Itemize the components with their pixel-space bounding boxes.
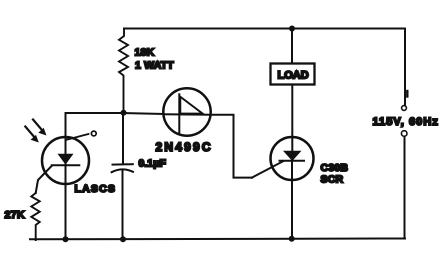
- wire through 2N499C: [164, 113, 211, 116]
- SCR cathode bar: [280, 160, 305, 162]
- wire 2N499C to SCR gate: [211, 115, 252, 178]
- svg-text:18K: 18K: [135, 47, 155, 59]
- wire bottom horizontal: [30, 238, 405, 241]
- LOAD box: [271, 64, 315, 85]
- svg-text:C30B: C30B: [321, 162, 349, 174]
- SCR thyristor triangle: [283, 151, 302, 161]
- wire LASCS cathode vertical to bottom: [65, 164, 67, 239]
- LASCS cathode bar: [52, 164, 80, 166]
- wire SCR cathode to bottom: [291, 161, 293, 239]
- 2N499C internal chord bar: [178, 94, 180, 133]
- LASCS anode-gate lead: [66, 134, 89, 140]
- light arrow 2: [25, 127, 39, 143]
- resistor R 18K 1 WATT: [119, 29, 128, 114]
- svg-text:LASCS: LASCS: [75, 183, 117, 195]
- wire LOAD top lead: [291, 29, 293, 64]
- svg-text:27K: 27K: [5, 209, 25, 221]
- svg-text:2N499C: 2N499C: [156, 140, 213, 154]
- LASCS anode-gate terminal: [91, 131, 96, 136]
- wire LOAD to SCR: [291, 85, 293, 138]
- wire right vertical upper: [404, 29, 406, 106]
- capacitor C 0.1uF: [122, 113, 124, 164]
- 2N499C internal triangle: [180, 97, 202, 114]
- plug tick on right wire: [406, 91, 408, 97]
- node junction LASCS cathode at bottom wire: [63, 236, 69, 242]
- terminal lower 115V: [401, 131, 407, 137]
- wire LASCS anode vertical: [65, 113, 67, 153]
- wire top horizontal: [124, 28, 405, 30]
- svg-text:SCR: SCR: [321, 174, 344, 186]
- terminal upper 115V: [402, 106, 407, 111]
- SCR internal wire top: [291, 138, 293, 151]
- svg-text:0.1μF: 0.1μF: [139, 158, 167, 170]
- LASCS thyristor triangle: [58, 154, 74, 165]
- svg-text:115V, 60Hz: 115V, 60Hz: [373, 116, 439, 128]
- LASCS circle: [42, 137, 89, 184]
- wire right vertical lower: [404, 137, 406, 239]
- node junction SCR cathode at bottom wire: [289, 236, 295, 242]
- LASCS cathode-gate lead: [36, 166, 52, 194]
- node junction top wire to LOAD: [289, 26, 295, 32]
- light arrow 1: [33, 120, 47, 136]
- trigger diode 2N499C circle: [163, 88, 210, 135]
- node junction capacitor at bottom wire: [120, 236, 126, 242]
- SCR C30B circle: [271, 137, 314, 180]
- wire mid horizontal (LASCS top to 2N499C): [66, 113, 164, 114]
- SCR gate diagonal lead: [252, 161, 283, 177]
- svg-text:LOAD: LOAD: [278, 70, 309, 82]
- resistor R 27K: [31, 193, 39, 240]
- svg-text:1 WATT: 1 WATT: [135, 60, 174, 72]
- node junction at 18K / mid wire / capacitor: [121, 110, 127, 116]
